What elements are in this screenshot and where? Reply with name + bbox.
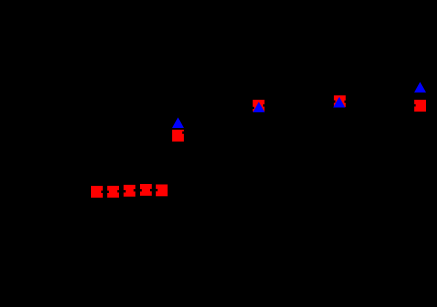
red square marker 5 — [156, 184, 168, 196]
connector-line notch on right edge of square 8 — [344, 101, 347, 103]
connector-line notch between squares 3-4 — [134, 189, 142, 191]
connector-line notch between squares 2-3 — [117, 190, 125, 192]
connector-line notch on left edge of square 7 — [252, 107, 255, 109]
connector-line notch on right edge of square 7 — [263, 104, 265, 106]
red square marker 3 — [124, 185, 136, 197]
connector-line notch on right edge of square 6 — [182, 131, 185, 133]
red square marker 2 — [107, 186, 119, 198]
connector-line notch between squares 4-5 — [150, 189, 158, 191]
connector-line notch on left edge of square 8 — [333, 100, 336, 102]
blue triangle marker 4 — [414, 82, 426, 93]
red square marker 1 — [91, 186, 103, 198]
red square marker 9 — [414, 100, 426, 112]
connector-line notch between squares 1-2 — [101, 191, 109, 193]
red square marker 4 — [140, 184, 152, 196]
red square marker 6 — [172, 130, 184, 142]
connector-line notch on left edge of square 9 — [413, 104, 416, 106]
blue triangle marker 2 — [253, 102, 265, 113]
blue triangle marker 1 — [172, 117, 184, 128]
blue triangle marker 3 — [333, 97, 345, 108]
red square marker 8 — [334, 95, 346, 107]
red square marker 7 — [253, 100, 265, 112]
